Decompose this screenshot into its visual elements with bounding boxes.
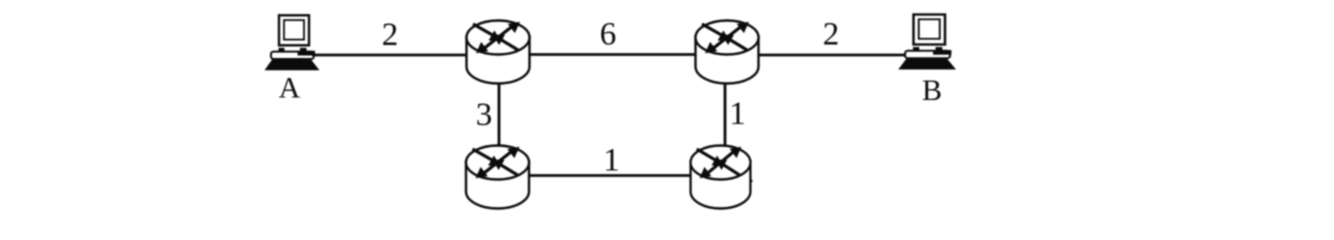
router R2 bbox=[696, 21, 759, 84]
router R1 bbox=[467, 21, 530, 84]
svg-text:2: 2 bbox=[823, 17, 840, 53]
wire R2-B bbox=[758, 54, 906, 57]
svg-text:3: 3 bbox=[476, 97, 493, 133]
svg-text:B: B bbox=[922, 74, 942, 107]
wire R1-R3 bbox=[498, 83, 501, 147]
router R3 bbox=[466, 146, 529, 209]
wire R2-R4 bbox=[724, 83, 727, 147]
svg-text:6: 6 bbox=[600, 17, 617, 53]
wire A-R1 bbox=[312, 54, 467, 57]
router R4 bbox=[691, 146, 751, 209]
svg-text:A: A bbox=[279, 72, 301, 105]
wire R1-R2 bbox=[529, 53, 696, 56]
stub on R4 right bbox=[748, 180, 753, 182]
svg-text:1: 1 bbox=[603, 143, 620, 179]
computer A bbox=[265, 15, 320, 70]
svg-text:1: 1 bbox=[729, 96, 746, 132]
svg-text:2: 2 bbox=[382, 17, 399, 53]
wire R3-R4 bbox=[528, 174, 692, 177]
computer B bbox=[898, 15, 956, 70]
